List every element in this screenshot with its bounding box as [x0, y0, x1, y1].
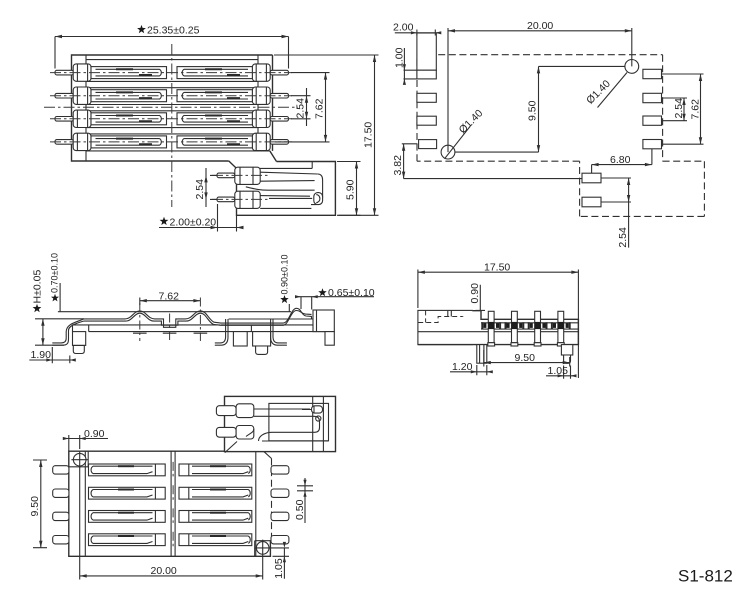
front pin 1 — [482, 311, 500, 346]
svg-text:S1-812: S1-812 — [678, 567, 733, 586]
dimension 17.50 — [274, 55, 379, 215]
svg-text:17.50: 17.50 — [484, 262, 510, 274]
dimension 7.62 (side view) — [133, 290, 207, 341]
horizontal centerline — [44, 106, 298, 108]
base top line — [229, 318, 313, 320]
middle posts — [233, 332, 247, 346]
shell mounting pad — [417, 33, 436, 70]
vertical centerline — [171, 44, 173, 207]
pad R3 — [643, 116, 662, 125]
detail pin 2 — [216, 426, 253, 440]
svg-text:2.54: 2.54 — [194, 179, 206, 200]
dimension 6.80 — [592, 149, 652, 173]
svg-text:0.90: 0.90 — [469, 283, 481, 304]
svg-text:0.90: 0.90 — [84, 428, 105, 440]
dimension 0.50 (bottom view) — [294, 478, 313, 523]
svg-text:0.90±0.10: 0.90±0.10 — [280, 255, 290, 295]
contact row 3 (top view) — [50, 110, 292, 127]
pad L3 — [417, 116, 436, 125]
front pin 2 — [506, 311, 524, 346]
pad R4 — [643, 140, 662, 149]
dimension 25.35±0.25 — [55, 25, 289, 69]
dimension 7.62 (right pads) — [690, 74, 703, 144]
contact row 1 (top view) — [50, 64, 292, 81]
dimension 2.00±0.20 — [159, 204, 244, 232]
left plastic post — [73, 332, 86, 346]
bottom slot row 2 — [53, 487, 289, 499]
svg-text:25.35±0.25: 25.35±0.25 — [147, 25, 200, 37]
bottom slot row 3 — [53, 511, 289, 523]
pad L4 — [419, 140, 437, 149]
front pin 3 — [529, 311, 547, 346]
dimension 0.70±0.10 — [50, 253, 60, 311]
hole cross 2 (bottom view) — [254, 540, 271, 557]
svg-text:1.20: 1.20 — [452, 361, 473, 373]
svg-text:1.90: 1.90 — [31, 349, 52, 361]
svg-text:9.50: 9.50 — [515, 352, 536, 364]
shell top profile (outer) — [84, 308, 312, 327]
dimension 9.50 (front) — [484, 350, 570, 367]
svg-text:1.05: 1.05 — [548, 365, 569, 377]
pad B1 — [582, 173, 601, 183]
detail view outline — [225, 396, 336, 452]
svg-text:7.62: 7.62 — [314, 98, 326, 119]
dimension 1.00 (pad height) — [393, 47, 417, 84]
dimension 0.65±0.10 — [295, 287, 375, 309]
dimension 17.50 (front) — [418, 262, 579, 379]
dimension 2.54 (top view right) — [291, 88, 311, 126]
dimension 1.05 (front) — [546, 365, 577, 379]
svg-text:1.05: 1.05 — [273, 558, 285, 579]
dimension 20.00 (bottom view) — [80, 468, 263, 580]
svg-text:H±0.05: H±0.05 — [31, 270, 43, 304]
dimension 1.05 (bottom view) — [270, 542, 289, 579]
svg-text:6.80: 6.80 — [610, 154, 631, 166]
leader Ø1.40 hole 2 — [584, 73, 627, 108]
pad R1 — [643, 69, 662, 78]
middle left leg — [215, 319, 228, 345]
dimension 3.82 — [392, 144, 582, 179]
detail pin 1 — [216, 404, 253, 418]
svg-text:5.90: 5.90 — [345, 179, 357, 200]
bottom slot row 4 — [53, 534, 289, 546]
front view body — [418, 310, 579, 344]
dimension 5.90 — [337, 162, 361, 216]
dimension 7.62 (top view right) — [275, 73, 330, 142]
dimension 20.00 — [448, 20, 632, 152]
svg-text:0.70±0.10: 0.70±0.10 — [50, 253, 60, 293]
section contact row 1 — [212, 167, 318, 184]
section contact hook — [314, 193, 323, 205]
shell tangent reference line — [58, 311, 291, 313]
svg-text:20.00: 20.00 — [527, 20, 553, 32]
svg-text:17.50: 17.50 — [363, 122, 375, 148]
hole cross 1 (bottom view) — [71, 451, 88, 468]
detail contact clip — [302, 406, 323, 421]
svg-text:9.50: 9.50 — [29, 496, 41, 517]
svg-text:Ø1.40: Ø1.40 — [584, 78, 613, 107]
svg-text:2.00±0.20: 2.00±0.20 — [170, 216, 217, 228]
dimension 2.00 (pad width) — [393, 22, 441, 36]
svg-text:0.50: 0.50 — [294, 499, 306, 520]
section contact tongue — [246, 174, 323, 205]
side section outline (below top view) — [229, 151, 336, 215]
svg-text:Ø1.40: Ø1.40 — [457, 107, 486, 136]
shell top profile (inner) — [84, 311, 312, 326]
svg-text:2.00: 2.00 — [393, 22, 414, 34]
pad B2 — [582, 197, 601, 207]
pad L2 — [417, 93, 436, 102]
svg-text:20.00: 20.00 — [151, 565, 177, 577]
svg-text:2.54: 2.54 — [295, 98, 307, 119]
dimension H±0.05 — [31, 270, 84, 346]
dimension 0.90 (front) — [469, 283, 485, 310]
front left post — [477, 345, 487, 364]
section contact row 2 — [212, 191, 311, 208]
dimension 1.20 — [450, 361, 493, 375]
dimension 0.90±0.10 — [280, 255, 290, 312]
dimension 9.50 (holes) — [455, 66, 625, 152]
pad R2 — [643, 93, 662, 102]
svg-text:2.54: 2.54 — [673, 98, 685, 119]
svg-text:9.50: 9.50 — [527, 100, 539, 121]
dimension 0.90 (bottom view) — [63, 428, 108, 451]
dimension 1.90 — [29, 347, 76, 363]
front right post — [561, 345, 572, 364]
detail inner contact — [246, 409, 329, 441]
left bent foot — [52, 319, 84, 345]
dimension 9.50 (bottom view) — [29, 460, 47, 548]
svg-text:1.00: 1.00 — [393, 47, 405, 68]
bottom slot row 1 — [53, 464, 289, 476]
PCB pattern dashed outline — [417, 55, 704, 217]
bottom view body — [69, 451, 272, 556]
connector body (top view) — [72, 55, 273, 161]
dimension 2.54 (section pins) — [194, 168, 217, 207]
svg-text:0.65±0.10: 0.65±0.10 — [328, 287, 375, 299]
dimension 2.54 (right pads) — [662, 74, 704, 144]
base bottom line — [73, 325, 326, 332]
right end leg — [325, 332, 334, 346]
middle right leg — [271, 319, 287, 345]
leader Ø1.40 hole 1 — [445, 107, 486, 159]
base mid line — [72, 324, 313, 326]
hole 2 — [625, 60, 639, 74]
pad L1 — [417, 70, 436, 79]
front pin 4 — [552, 311, 570, 346]
dimension 2.54 (bottom pads) — [601, 178, 631, 248]
svg-text:7.62: 7.62 — [690, 99, 702, 120]
right end cap — [313, 310, 334, 332]
svg-text:3.82: 3.82 — [392, 155, 404, 176]
contact row 2 (top view) — [50, 87, 292, 104]
svg-text:2.54: 2.54 — [617, 227, 629, 248]
hole 1 — [441, 145, 455, 159]
contact row 4 (top view) — [50, 133, 292, 150]
svg-text:7.62: 7.62 — [159, 290, 180, 302]
